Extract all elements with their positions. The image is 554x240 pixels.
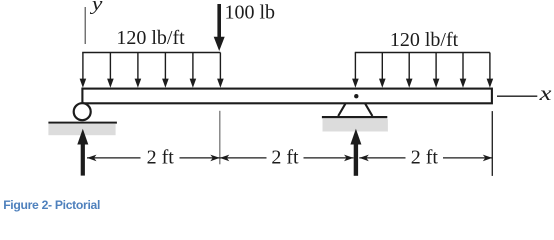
right reaction arrow [350,129,361,176]
right distributed load top line [355,52,490,54]
left support pad [48,124,115,135]
left load arrow 3 [135,53,142,88]
middle dimension line 2 ft [220,155,354,162]
svg-text:120 lb/ft: 120 lb/ft [390,29,459,51]
y axis line [84,7,86,44]
beam [82,89,492,104]
left load arrow 4 [162,53,169,88]
right support ground line [322,116,387,118]
left support ground line [48,122,117,124]
force 100 lb arrow [214,4,225,51]
extension line below 100 lb force [219,111,221,165]
right dimension line 2 ft [359,155,492,162]
svg-text:y: y [90,0,103,14]
left load arrow 1 [80,53,87,88]
svg-text:x: x [538,83,551,105]
roller support circle [74,103,91,120]
svg-text:2 ft: 2 ft [411,147,439,169]
x axis line [497,95,537,97]
pin node dot [354,94,358,98]
svg-text:120 lb/ft: 120 lb/ft [116,27,185,49]
figure caption [3,198,100,212]
right load arrow 1 [352,53,359,88]
left distributed load top line [82,52,220,54]
left load arrow 5 [190,53,197,88]
left load arrow 2 [107,53,114,88]
svg-text:100 lb: 100 lb [225,1,276,23]
right end extension line [491,111,493,176]
right load arrow 4 [433,53,440,88]
svg-text:2 ft: 2 ft [147,147,175,169]
right load arrow 5 [460,53,467,88]
left dimension line 2 ft [87,155,220,162]
right support pad [323,119,388,132]
svg-text:2 ft: 2 ft [271,147,299,169]
left reaction arrow [77,129,88,176]
right load arrow 2 [379,53,386,88]
right load arrow 3 [406,53,413,88]
right load arrow 6 [487,53,494,88]
left load arrow 6 [217,53,224,88]
pin support triangle [338,104,372,116]
